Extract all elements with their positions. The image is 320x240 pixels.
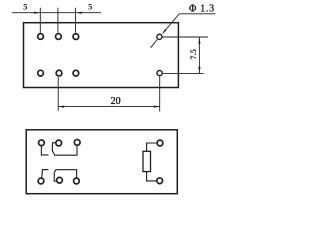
PCB outline (top view) (24, 23, 179, 88)
dimension line 20 (58, 106, 160, 108)
pole2 fixed contact lever (42, 170, 49, 178)
leader tail past hole H7 (151, 40, 158, 48)
extension line from H8 down (159, 76, 161, 111)
dimension line 7.5 (vertical) (198, 37, 200, 73)
arrowhead down at 7.5 dim (198, 67, 200, 73)
leader underline for phi 1.3 (179, 13, 215, 15)
arrowhead up at 7.5 dim (198, 37, 200, 43)
schematic outline (bottom view) (26, 130, 177, 194)
arrowhead left at x=76 (76, 12, 82, 14)
leader arrowhead at hole H7 (162, 29, 167, 34)
dimension line (5,5) (12, 12, 101, 14)
svg-text:20: 20 (111, 96, 121, 107)
hole H1 (38, 34, 44, 40)
extension line from H5 down (57, 77, 59, 111)
arrowhead left at 20 dim (58, 106, 64, 108)
coil terminal C1 (157, 140, 163, 146)
svg-text:5: 5 (88, 2, 92, 12)
pole1 terminal A3 (74, 140, 80, 146)
extension line x=57.9 (57, 8, 59, 33)
extension line x=75.5 (75, 8, 77, 33)
hole H8 (157, 71, 162, 76)
hole H4 (38, 70, 44, 76)
leader diagonal to hole H7 (165, 14, 180, 31)
pole2 terminal B2 (common) (57, 177, 63, 183)
hole H3 (73, 34, 79, 40)
pole1 terminal A2 (common) (56, 140, 62, 146)
svg-text:7.5: 7.5 (188, 49, 198, 60)
hole H5 (56, 70, 62, 76)
leader line from H8 to 7.5 dimension (163, 72, 204, 74)
pole1 armature and bar to A3 (52, 143, 77, 155)
coil K (143, 151, 151, 171)
coil bottom lead wire (147, 172, 157, 181)
pole1 terminal A1 (39, 140, 45, 146)
arrowhead right at 20 dim (154, 106, 160, 108)
arrowhead right at x=40 (34, 12, 40, 14)
hole H6 (73, 70, 79, 76)
hole H2 (56, 34, 62, 40)
coil top lead wire (147, 143, 157, 151)
pole2 armature and bar to B3 (54, 170, 76, 181)
extension line x=40.3 (39, 8, 41, 33)
pole1 fixed contact stub (41, 146, 48, 155)
svg-text:Φ 1.3: Φ 1.3 (189, 4, 215, 15)
hole H7 (phi 1.3) (157, 34, 162, 39)
leader line from H7 to 7.5 dimension (163, 36, 208, 38)
svg-text:5: 5 (23, 2, 27, 12)
coil terminal C2 (157, 178, 163, 184)
pole2 terminal B1 (38, 178, 44, 184)
pole2 terminal B3 (74, 178, 80, 184)
